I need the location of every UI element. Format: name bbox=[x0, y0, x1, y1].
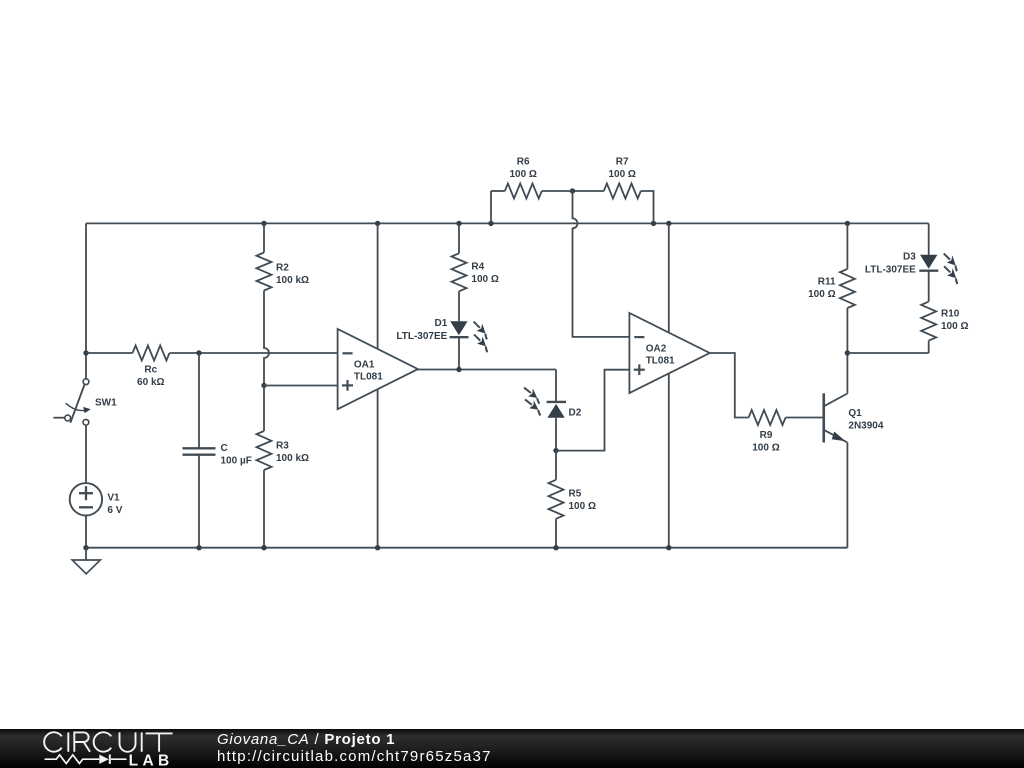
footer bar bbox=[0, 729, 1024, 768]
svg-text:100 Ω: 100 Ω bbox=[941, 321, 968, 332]
node top rail junction at R11 bbox=[845, 221, 850, 226]
wire OA1 output bbox=[418, 369, 556, 371]
wire Q1 emitter down bbox=[846, 443, 848, 548]
LED D1 light arrows bbox=[470, 318, 492, 340]
node top rail junction at x=669 bbox=[666, 221, 671, 226]
ground bbox=[85, 548, 87, 560]
voltage source V1 bbox=[70, 483, 102, 515]
node bottom rail junction C bbox=[196, 545, 201, 550]
wire vertical rail under OA1 bbox=[377, 223, 379, 547]
svg-text:6 V: 6 V bbox=[107, 505, 122, 516]
svg-text:60 kΩ: 60 kΩ bbox=[137, 377, 164, 388]
svg-text:SW1: SW1 bbox=[95, 398, 117, 409]
node junction D1/OA1 output bbox=[456, 367, 461, 372]
svg-text:100 Ω: 100 Ω bbox=[808, 289, 835, 300]
svg-text:Q1: Q1 bbox=[848, 408, 862, 419]
resistor R3 bbox=[257, 431, 272, 470]
node top rail junction at x=377 bbox=[375, 221, 380, 226]
node junction C top bbox=[196, 350, 201, 355]
node top rail junction at R7 bbox=[651, 221, 656, 226]
node bottom rail junction R5 bbox=[553, 545, 558, 550]
wire R9 to Q1 base bbox=[786, 417, 824, 419]
wire R11 bottom to R10 bottom bbox=[847, 352, 928, 354]
svg-text:TL081: TL081 bbox=[646, 356, 675, 367]
svg-text:TL081: TL081 bbox=[354, 372, 383, 383]
LED D3 bbox=[920, 255, 937, 269]
wire left rail from top rail to SW1 bbox=[85, 223, 87, 378]
node bottom rail junction x=377 bbox=[375, 545, 380, 550]
svg-text:R3: R3 bbox=[276, 440, 289, 451]
svg-text:100 Ω: 100 Ω bbox=[471, 274, 498, 285]
wire R10 bottom lead bbox=[928, 341, 930, 353]
svg-text:D2: D2 bbox=[569, 408, 582, 419]
LED D1 bbox=[450, 321, 467, 335]
wire D3 to R10 bbox=[928, 271, 930, 302]
resistor R4 bbox=[452, 253, 467, 291]
svg-text:D1: D1 bbox=[435, 318, 448, 329]
svg-text:R4: R4 bbox=[471, 262, 484, 273]
svg-text:LAB: LAB bbox=[129, 752, 174, 768]
wire V1 to bottom rail bbox=[85, 516, 87, 548]
CircuitLab logo bbox=[44, 732, 174, 768]
wire R3 bottom lead bbox=[263, 470, 265, 548]
wire to OA1 non-inverting input bbox=[264, 385, 338, 387]
svg-text:LTL-307EE: LTL-307EE bbox=[865, 265, 916, 276]
wire R2 top lead bbox=[263, 223, 265, 252]
wire R2 bottom lead with hop over Rc wire bbox=[264, 291, 269, 386]
svg-text:LTL-307EE: LTL-307EE bbox=[396, 331, 447, 342]
wire R4 top lead bbox=[458, 223, 460, 253]
switch SW1 bbox=[83, 379, 89, 385]
node bottom rail junction V1/ground bbox=[83, 545, 88, 550]
wire R3 top lead bbox=[263, 386, 265, 432]
photodiode D2 light arrows bbox=[521, 384, 544, 405]
node junction left rail / Rc bbox=[83, 350, 88, 355]
svg-text:R6: R6 bbox=[517, 156, 530, 167]
resistor Rc bbox=[133, 346, 170, 361]
svg-text:R7: R7 bbox=[616, 156, 629, 167]
svg-text:100 kΩ: 100 kΩ bbox=[276, 453, 309, 464]
LED D3 light arrows bbox=[941, 250, 963, 272]
svg-text:R2: R2 bbox=[276, 263, 289, 274]
node top rail junction at R6 bbox=[488, 221, 493, 226]
svg-text:R5: R5 bbox=[569, 489, 582, 500]
photodiode D2 bbox=[547, 401, 566, 403]
svg-text:R10: R10 bbox=[941, 309, 960, 320]
wire R5 top lead bbox=[555, 451, 557, 480]
svg-text:C: C bbox=[221, 443, 228, 454]
node top rail junction at R4 bbox=[456, 221, 461, 226]
wire bottom rail bbox=[86, 547, 847, 549]
op-amp OA1 bbox=[338, 329, 418, 409]
resistor R11 bbox=[840, 269, 855, 308]
svg-text:100 Ω: 100 Ω bbox=[752, 443, 779, 454]
wire OA1 output down to D2 bbox=[555, 370, 557, 402]
node bottom rail junction x=669 bbox=[666, 545, 671, 550]
wire Q1 collector up bbox=[846, 353, 848, 394]
wire OA2 output to R9 bbox=[710, 353, 749, 418]
resistor R10 bbox=[921, 302, 936, 341]
wire D2 node to OA2 non-inverting input bbox=[556, 370, 629, 451]
wire R6 left leg bbox=[490, 191, 492, 223]
node junction R11/R10/collector bbox=[845, 350, 850, 355]
wire Rc input segment bbox=[86, 352, 133, 354]
wire R4 to D1 bbox=[458, 291, 460, 321]
wire SW1 to V1 bbox=[85, 425, 87, 483]
node junction D2/R5 bbox=[553, 448, 558, 453]
svg-text:Rc: Rc bbox=[144, 364, 157, 375]
svg-text:100 Ω: 100 Ω bbox=[608, 169, 635, 180]
wire R6 lead bbox=[491, 190, 505, 192]
transistor Q1 bbox=[822, 393, 825, 442]
wire D2 anode down bbox=[555, 418, 557, 451]
wire C top lead bbox=[198, 353, 200, 448]
svg-text:OA1: OA1 bbox=[354, 359, 375, 370]
wire right column top bbox=[928, 223, 930, 254]
wire top rail bbox=[86, 222, 929, 224]
wire C bottom lead bbox=[198, 455, 200, 548]
svg-text:R9: R9 bbox=[760, 430, 773, 441]
op-amp OA2 bbox=[629, 313, 709, 393]
svg-text:100 kΩ: 100 kΩ bbox=[276, 275, 309, 286]
svg-text:100 Ω: 100 Ω bbox=[569, 501, 596, 512]
wire feedback drop to OA2 inverting input with hop over top rail bbox=[573, 191, 630, 337]
node top rail junction at R2 bbox=[261, 221, 266, 226]
node junction R2/R3 to OA1 + bbox=[261, 383, 266, 388]
svg-text:R11: R11 bbox=[818, 277, 836, 288]
node junction R6/R7 bbox=[570, 188, 575, 193]
svg-text:100 Ω: 100 Ω bbox=[509, 169, 536, 180]
resistor R2 bbox=[257, 253, 272, 291]
svg-text:D3: D3 bbox=[903, 252, 916, 263]
resistor R7 bbox=[604, 184, 641, 199]
svg-text:OA2: OA2 bbox=[646, 343, 667, 354]
wire R7 right leg bbox=[641, 191, 654, 223]
capacitor C bbox=[183, 447, 216, 449]
svg-text:2N3904: 2N3904 bbox=[848, 420, 883, 431]
wire R11 top lead bbox=[846, 223, 848, 269]
wire R5 bottom lead bbox=[555, 519, 557, 548]
wire Rc to OA1 inverting input bbox=[170, 352, 338, 354]
wire D1 to OA1 output bbox=[458, 337, 460, 369]
resistor R9 bbox=[749, 410, 786, 425]
svg-text:100 µF: 100 µF bbox=[221, 455, 252, 466]
wire vertical rail under OA2 bbox=[668, 223, 670, 547]
wire R6-R7 link bbox=[542, 190, 604, 192]
resistor R5 bbox=[549, 480, 564, 519]
node bottom rail junction R3 bbox=[261, 545, 266, 550]
resistor R6 bbox=[505, 184, 542, 199]
svg-text:V1: V1 bbox=[107, 492, 120, 503]
wire R11 bottom lead bbox=[846, 308, 848, 353]
